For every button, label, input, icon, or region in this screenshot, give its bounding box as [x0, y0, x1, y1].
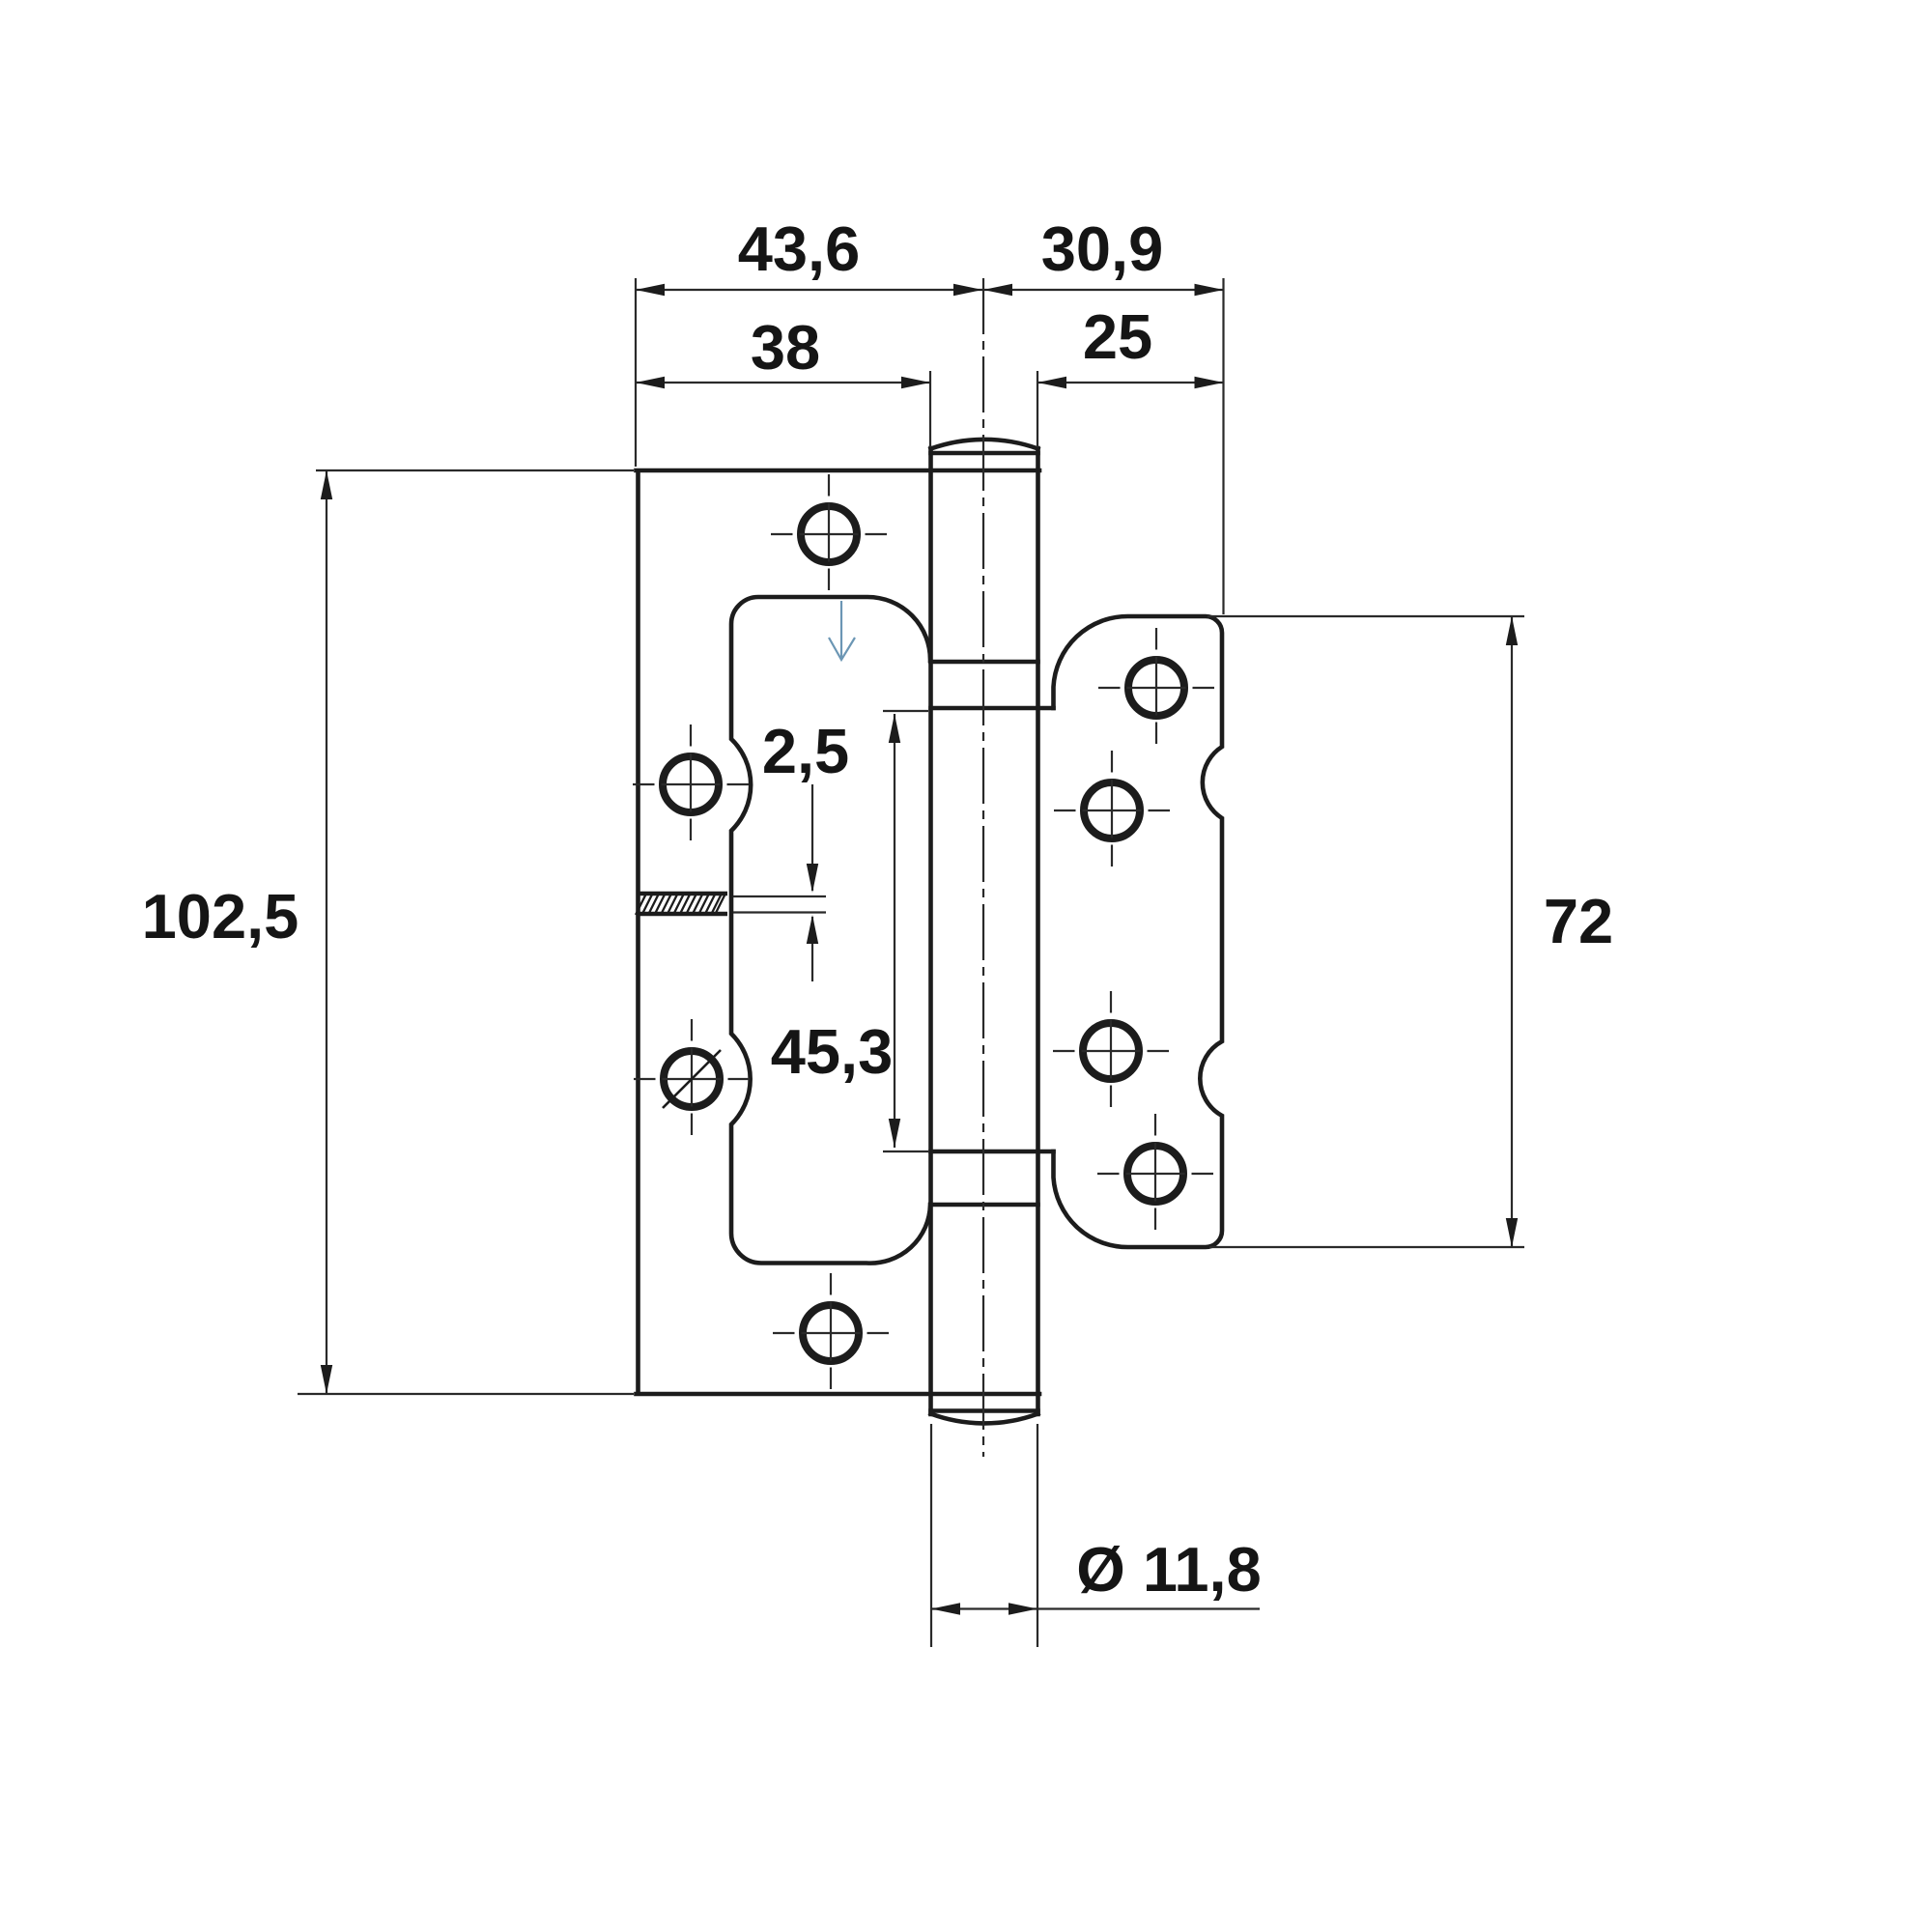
hole left-middle	[633, 724, 749, 844]
arrow 45,3 top	[889, 714, 900, 743]
hole right-3	[1053, 991, 1169, 1111]
hatch lines	[636, 894, 725, 915]
barrel joint line at right-leaf top step	[931, 706, 1054, 711]
arrow dia right	[1009, 1603, 1037, 1614]
dimension line dia 11,8	[930, 1607, 1260, 1609]
barrel joint line lower	[931, 1203, 1038, 1207]
arrow 102,5 top	[321, 470, 332, 499]
arrow 38 right	[901, 377, 930, 388]
pin top cap rim	[931, 451, 1038, 456]
arrow 43,6 left	[636, 284, 665, 296]
arrow 25 right	[1195, 377, 1224, 388]
strip borders	[637, 894, 727, 914]
dimension line 30,9	[983, 289, 1224, 291]
svg-text:43,6: 43,6	[738, 213, 861, 284]
dia extension right	[1037, 1424, 1038, 1647]
72 top extension	[1207, 615, 1524, 617]
hole left-bottom	[773, 1273, 889, 1393]
2,5 lower extension	[733, 911, 826, 913]
extension line right-edge up	[1222, 278, 1224, 614]
svg-text:102,5: 102,5	[142, 881, 299, 952]
2,5 upper extension	[733, 895, 826, 897]
pin top dome	[931, 440, 1038, 449]
svg-text:25: 25	[1083, 301, 1152, 372]
svg-text:Ø 11,8: Ø 11,8	[1076, 1534, 1262, 1605]
dimension line 45,3	[894, 714, 895, 1148]
2,5 upper arrow line	[811, 784, 813, 891]
arrow 102,5 bottom	[321, 1365, 332, 1394]
hole right-2	[1054, 751, 1170, 870]
arrow 2,5 up	[807, 915, 818, 944]
dimension line 25	[1037, 382, 1224, 384]
arrow 25 left	[1037, 377, 1066, 388]
svg-text:45,3: 45,3	[771, 1016, 894, 1087]
dimension line 43,6	[636, 289, 982, 291]
extension line barrel-left up	[929, 371, 931, 447]
svg-text:2,5: 2,5	[762, 716, 849, 786]
72 bottom extension	[1209, 1246, 1524, 1248]
arrow 45,3 bottom	[889, 1119, 900, 1148]
102,5 top extension	[316, 469, 634, 471]
hole right-1	[1098, 628, 1214, 748]
arrow 72 bottom	[1506, 1218, 1518, 1247]
arrow dia left	[931, 1603, 960, 1614]
pin bottom cap rim	[931, 1408, 1038, 1413]
slash mark	[663, 1050, 721, 1108]
extension line barrel-right up	[1037, 371, 1038, 447]
barrel joint line at right-leaf bottom step	[931, 1150, 1054, 1154]
arrow 38 left	[636, 377, 665, 388]
hole left-lower (slashed)	[634, 1019, 750, 1139]
left leaf outline	[637, 470, 1040, 1394]
2,5 lower arrow line	[811, 917, 813, 981]
dimension line 72	[1511, 616, 1513, 1247]
102,5 bottom extension	[298, 1393, 634, 1395]
extension line left-edge up	[635, 278, 637, 467]
dimension line 38	[636, 382, 930, 384]
45,3 bottom extension	[883, 1151, 928, 1152]
pin bottom dome	[931, 1414, 1038, 1424]
dimension line 102,5	[326, 470, 327, 1394]
hole left-top	[771, 474, 887, 594]
dia extension left	[930, 1424, 932, 1647]
left leaf cutout contour	[731, 597, 930, 1264]
barrel right wall	[1036, 448, 1040, 1414]
hole right-4	[1097, 1114, 1213, 1234]
arrow 43,6 right	[953, 284, 982, 296]
svg-text:30,9: 30,9	[1041, 213, 1164, 284]
svg-text:38: 38	[751, 312, 820, 383]
barrel joint line upper	[931, 660, 1038, 665]
svg-text:72: 72	[1544, 886, 1613, 956]
arrow 2,5 down	[807, 864, 818, 893]
right leaf outline	[1054, 616, 1223, 1247]
barrel left wall	[928, 448, 933, 1414]
arrow 72 top	[1506, 616, 1518, 645]
arrow 30,9 left	[983, 284, 1012, 296]
45,3 top extension	[883, 710, 928, 712]
arrow 30,9 right	[1195, 284, 1224, 296]
